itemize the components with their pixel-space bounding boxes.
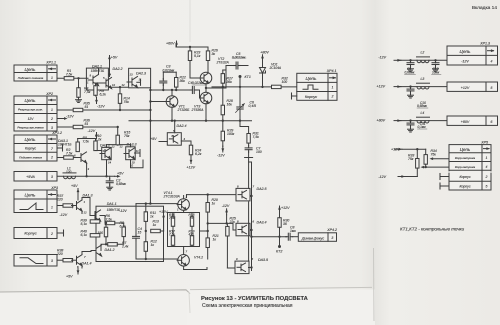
resistor R1 xyxy=(64,77,74,80)
wire +60V rail xyxy=(176,46,208,52)
wires VT2 xyxy=(189,61,191,79)
main output bus xyxy=(212,86,297,88)
svg-text:Подсвет знаков: Подсвет знаков xyxy=(19,156,42,160)
VT2-VT3 link xyxy=(205,84,207,92)
+80V row box xyxy=(447,116,498,125)
svg-text:2: 2 xyxy=(485,175,488,179)
VT4 box xyxy=(168,213,200,247)
inductor L2 xyxy=(417,57,430,63)
svg-text:L2: L2 xyxy=(421,51,425,55)
svg-text:Корпус: Корпус xyxy=(459,185,470,189)
svg-text:DA2.5: DA2.5 xyxy=(257,187,267,191)
connector XP1.3 xyxy=(447,46,498,65)
wire R25 to DA3.4 input xyxy=(227,223,236,230)
svg-text:-12V: -12V xyxy=(378,56,386,60)
svg-text:198НТ1Б: 198НТ1Б xyxy=(91,69,104,73)
svg-text:100к: 100к xyxy=(227,132,235,136)
resistor R25 xyxy=(226,226,229,236)
resistor R4 xyxy=(77,88,80,98)
resistor R8 xyxy=(122,227,125,237)
svg-text:5: 5 xyxy=(486,185,488,189)
svg-text:7,5к: 7,5к xyxy=(169,233,175,237)
+5V arrow end of +5VA row xyxy=(117,175,121,178)
svg-text:Цепь: Цепь xyxy=(25,98,37,103)
svg-text:2С104А: 2С104А xyxy=(269,66,282,70)
DA3.3 box xyxy=(126,147,136,160)
DA2.4 pin5 stub to bus2 xyxy=(174,121,176,133)
svg-text:1: 1 xyxy=(51,76,53,80)
resistor R30 xyxy=(278,218,281,228)
svg-text:6,2к: 6,2к xyxy=(195,152,202,156)
Корпус pin2 stub xyxy=(57,232,64,234)
optobox DA3.4 xyxy=(236,223,250,236)
svg-text:190: 190 xyxy=(97,231,103,235)
svg-text:5: 5 xyxy=(491,86,493,90)
svg-text:36к: 36к xyxy=(227,80,233,84)
svg-text:3к: 3к xyxy=(212,52,216,56)
svg-text:DA2.3: DA2.3 xyxy=(136,71,146,75)
svg-text:7,5к: 7,5к xyxy=(106,218,113,222)
capacitor C9 xyxy=(407,60,414,67)
capacitor C5 xyxy=(234,62,241,69)
svg-text:L3: L3 xyxy=(421,77,425,81)
svg-text:12V: 12V xyxy=(28,117,35,121)
wires DA1.3 to DA1.1 xyxy=(82,198,90,216)
resistor R32 xyxy=(272,85,282,88)
svg-text:16к: 16к xyxy=(227,102,233,106)
XP2 header arrow xyxy=(49,99,56,102)
svg-text:VT4.2: VT4.2 xyxy=(194,256,203,260)
transistor DA1.2 xyxy=(91,245,102,256)
svg-text:+5V: +5V xyxy=(117,172,124,176)
DA3.1 emitter down xyxy=(86,163,88,176)
svg-text:Корпус: Корпус xyxy=(305,95,317,99)
wire to DA2.5 xyxy=(187,194,237,196)
resistor R17 xyxy=(171,236,174,246)
svg-text:13: 13 xyxy=(130,73,134,77)
svg-text:75к: 75к xyxy=(408,157,414,161)
transistor VT1 xyxy=(166,96,178,108)
capacitor C8 xyxy=(286,233,293,240)
transistor DA1.4 xyxy=(72,255,83,266)
svg-text:12: 12 xyxy=(112,145,116,149)
wire VT4 box to R20 column xyxy=(200,230,208,232)
resistor R38 xyxy=(63,259,73,262)
wire +5VA row xyxy=(57,175,115,177)
resistor R13 xyxy=(151,229,161,232)
svg-text:XP4.2: XP4.2 xyxy=(326,228,337,232)
svg-text:51: 51 xyxy=(85,105,89,109)
svg-text:+12V: +12V xyxy=(377,85,386,89)
resistor R10 xyxy=(94,141,97,151)
transistor DA1.1a xyxy=(90,210,101,221)
XP1.1 header arrow xyxy=(49,67,56,70)
Корпус stub XP4.1 xyxy=(292,95,297,97)
+12V under R24 xyxy=(190,155,192,158)
resistor R27 xyxy=(221,74,224,84)
C3/R22 loop top wire xyxy=(163,71,176,73)
svg-text:7,5к: 7,5к xyxy=(84,90,91,94)
svg-text:Корр.катушка: Корр.катушка xyxy=(455,156,476,160)
-12V under R9 xyxy=(95,98,98,104)
svg-text:0,68мк: 0,68мк xyxy=(405,71,415,75)
resistor R15 xyxy=(116,135,119,145)
resistor R40 xyxy=(90,234,100,237)
svg-text:2,4к: 2,4к xyxy=(121,245,129,249)
svg-text:DA1.2: DA1.2 xyxy=(105,248,115,252)
resistor R21 xyxy=(206,238,209,248)
vertical from C7 to DA2.5 xyxy=(248,158,250,189)
svg-text:12: 12 xyxy=(122,83,126,87)
svg-text:75к: 75к xyxy=(124,100,130,104)
svg-text:+5V: +5V xyxy=(66,275,73,279)
svg-text:XP3: XP3 xyxy=(50,186,58,190)
svg-text:XP1.3: XP1.3 xyxy=(479,42,490,46)
XP3 header arrow xyxy=(49,193,56,196)
resistor R11 xyxy=(144,212,147,222)
resistor R19 xyxy=(190,236,193,246)
svg-text:-12V: -12V xyxy=(378,175,386,179)
КТ2 test point xyxy=(278,245,281,248)
variable capacitor C6 xyxy=(236,87,245,121)
wire XP3 pin1 to R37 xyxy=(57,205,63,207)
svg-text:2ТС3103А: 2ТС3103А xyxy=(163,195,181,199)
output wire to XP4.2 xyxy=(252,236,287,238)
svg-text:1: 1 xyxy=(51,108,53,112)
inductor L4 xyxy=(417,117,430,123)
svg-text:Регулир.ярк.знаков: Регулир.ярк.знаков xyxy=(17,126,44,130)
svg-text:-12V: -12V xyxy=(88,129,96,133)
+12V filter wire xyxy=(400,86,447,88)
svg-text:220: 220 xyxy=(56,252,63,256)
svg-text:100: 100 xyxy=(282,80,288,84)
svg-text:13: 13 xyxy=(103,149,107,153)
transistor DA2.2 xyxy=(101,78,112,89)
resistor R29 xyxy=(221,131,224,141)
svg-text:DA1.1: DA1.1 xyxy=(107,202,117,206)
svg-text:Схема электрическая принципиал: Схема электрическая принципиальная xyxy=(202,303,293,309)
wire XP2 pin3 row xyxy=(57,126,118,128)
svg-text:-12V: -12V xyxy=(60,213,68,217)
transistor DA3.2 xyxy=(100,148,111,159)
resistor R23 xyxy=(188,51,191,61)
transistor DA1.3 xyxy=(72,200,83,211)
loop bottom wire xyxy=(150,89,189,91)
connector XP4.2 Динам.фокус xyxy=(298,233,336,242)
svg-text:Корр.катушка: Корр.катушка xyxy=(455,165,476,169)
svg-text:1: 1 xyxy=(332,85,334,89)
resistor R34 xyxy=(425,149,427,154)
svg-text:Регулир.ярк.сигн.: Регулир.ярк.сигн. xyxy=(18,108,43,112)
svg-text:75к: 75к xyxy=(124,134,130,138)
svg-text:+60V: +60V xyxy=(166,41,175,45)
resistor R6 xyxy=(105,221,115,224)
long feedback vertical xyxy=(149,88,151,204)
transistor DA3.1 xyxy=(76,152,87,163)
parallel bus line xyxy=(248,202,250,261)
+60V supply xyxy=(175,41,178,47)
bus3 top xyxy=(136,203,178,205)
svg-text:3: 3 xyxy=(51,259,53,263)
svg-text:2: 2 xyxy=(50,232,53,236)
connector XP3 xyxy=(14,190,57,213)
node 12-12 wire xyxy=(109,86,128,88)
svg-text:198НТ1Б: 198НТ1Б xyxy=(107,208,120,212)
svg-text:11: 11 xyxy=(136,149,139,153)
svg-text:7,5к: 7,5к xyxy=(169,216,175,220)
DA3.2-DA3.3 link wire xyxy=(106,145,108,148)
op-amp box DA2.1 xyxy=(86,68,108,90)
svg-text:DA2.1: DA2.1 xyxy=(92,65,102,69)
inductor L1 xyxy=(63,173,76,179)
svg-text:120: 120 xyxy=(66,170,72,174)
VT4 inner wires xyxy=(172,226,174,235)
-12V under R33 xyxy=(416,168,418,176)
wire DA2.1 collector up xyxy=(98,68,100,74)
resistor R24 xyxy=(189,145,192,155)
resistor R36 xyxy=(73,125,83,128)
svg-text:1к: 1к xyxy=(153,223,157,227)
svg-text:4: 4 xyxy=(491,59,493,63)
svg-text:5,1к: 5,1к xyxy=(194,54,201,58)
svg-text:3: 3 xyxy=(331,236,333,240)
svg-text:6,2к: 6,2к xyxy=(120,225,127,229)
XP1.2 header arrow xyxy=(49,138,56,141)
row1 wire xyxy=(433,158,449,160)
svg-text:7: 7 xyxy=(51,147,53,151)
KT1 test point xyxy=(239,75,242,78)
Корпус box pin2 xyxy=(14,228,57,239)
capacitor C2 xyxy=(106,178,113,185)
svg-text:6,1к: 6,1к xyxy=(81,233,88,237)
connector XP1.1 xyxy=(14,65,57,81)
svg-text:L4: L4 xyxy=(421,111,425,115)
svg-text:12: 12 xyxy=(84,211,88,215)
transistor DA3.3 xyxy=(124,148,135,159)
-12V filter wire xyxy=(400,59,447,61)
svg-text:51: 51 xyxy=(85,122,89,126)
capacitor C12 xyxy=(432,60,439,67)
XP4.1 pulse waveform xyxy=(303,85,318,89)
svg-text:КТ1,КТ2 - контрольные точки: КТ1,КТ2 - контрольные точки xyxy=(400,227,465,232)
svg-text:5,1к: 5,1к xyxy=(81,222,88,226)
transistor VT4.2 xyxy=(177,254,189,266)
inner wires DA1.1 xyxy=(100,216,105,224)
sawtooth-down waveform xyxy=(20,258,43,264)
svg-text:XP1.2: XP1.2 xyxy=(51,131,62,135)
svg-text:DA2.4: DA2.4 xyxy=(177,124,187,128)
svg-text:+80V: +80V xyxy=(377,119,386,123)
svg-text:14: 14 xyxy=(108,73,112,77)
capacitor C4b xyxy=(133,234,140,241)
svg-text:2Т326Б: 2Т326Б xyxy=(177,108,191,112)
svg-text:DA1.3: DA1.3 xyxy=(83,194,93,198)
svg-text:14: 14 xyxy=(108,161,112,165)
VT4.2 collector wire xyxy=(184,268,207,270)
svg-text:+5V: +5V xyxy=(111,56,118,60)
svg-text:36к: 36к xyxy=(180,79,186,83)
zener VD1 xyxy=(260,68,266,87)
svg-text:1мк: 1мк xyxy=(290,229,296,233)
svg-text:+5VA: +5VA xyxy=(26,175,35,179)
resistor R22 xyxy=(175,78,178,88)
svg-text:220: 220 xyxy=(56,198,63,202)
svg-text:DA2.2: DA2.2 xyxy=(113,67,123,71)
ground under R4 xyxy=(76,97,82,102)
svg-text:Динам.фокус: Динам.фокус xyxy=(301,236,325,240)
capacitor C3 xyxy=(160,79,167,86)
transistor VT2 xyxy=(200,72,212,84)
svg-text:+12V: +12V xyxy=(281,206,290,210)
capacitor C4 xyxy=(190,87,197,94)
connector XP4.1 xyxy=(297,73,337,100)
connector XP5 xyxy=(449,145,491,190)
svg-text:-12V: -12V xyxy=(66,115,74,119)
svg-text:6: 6 xyxy=(491,120,493,124)
svg-text:+5V: +5V xyxy=(71,184,78,188)
svg-text:+80V: +80V xyxy=(260,51,269,55)
svg-text:DA3.5: DA3.5 xyxy=(258,258,268,262)
svg-text:DA1.4: DA1.4 xyxy=(82,261,92,265)
wire XP3 pin3 to R38 xyxy=(57,259,63,261)
+80V filter wire xyxy=(400,120,447,122)
svg-text:10: 10 xyxy=(130,164,134,168)
svg-text:-12V: -12V xyxy=(222,204,230,208)
left vertical with C4b xyxy=(135,204,137,235)
wire XP2 pin2 -12V xyxy=(57,118,64,120)
cap stub right of DA2.3 xyxy=(137,81,141,83)
svg-text:2ТЕ32А: 2ТЕ32А xyxy=(216,61,230,65)
right bus of opto column xyxy=(251,162,253,271)
page bottom edge xyxy=(0,292,187,325)
DA2.4 to R24 xyxy=(181,141,191,145)
svg-text:2Т636А: 2Т636А xyxy=(191,108,205,112)
svg-text:10мк: 10мк xyxy=(432,71,440,75)
svg-text:-12V: -12V xyxy=(97,104,105,108)
DA3.3 pin10 loop xyxy=(131,160,144,168)
resistor R31 xyxy=(247,134,250,144)
svg-text:15: 15 xyxy=(138,231,142,235)
inductor L3 xyxy=(417,83,430,89)
svg-text:6,2к: 6,2к xyxy=(100,93,107,97)
svg-text:Подсвет сигнала: Подсвет сигнала xyxy=(18,76,44,80)
XP1.2 Корпус pin7 stub xyxy=(57,147,63,149)
svg-text:1к: 1к xyxy=(212,202,216,206)
sawtooth-down box pin3 xyxy=(14,255,57,267)
svg-text:2: 2 xyxy=(50,117,53,121)
resistor 190 xyxy=(104,227,107,237)
svg-text:Корпус: Корпус xyxy=(25,147,36,151)
svg-text:+12V: +12V xyxy=(461,86,470,90)
svg-text:36: 36 xyxy=(283,222,287,226)
+5VA box xyxy=(14,172,57,182)
svg-text:7,5к: 7,5к xyxy=(66,72,73,76)
svg-text:Рисунок 13 - УСИЛИТЕЛЬ ПОДСВЕТ: Рисунок 13 - УСИЛИТЕЛЬ ПОДСВЕТА xyxy=(201,296,309,302)
svg-text:+5V: +5V xyxy=(150,137,157,141)
transistor DA2.1 xyxy=(88,75,99,86)
emitter downs to bus2 xyxy=(171,107,173,120)
svg-text:+12V: +12V xyxy=(187,166,196,170)
resistor R2 xyxy=(64,156,74,159)
XP3 sawtooth-up waveform xyxy=(20,203,43,210)
svg-text:12: 12 xyxy=(120,145,124,149)
svg-text:1: 1 xyxy=(51,205,53,209)
svg-text:Вкладка 14: Вкладка 14 xyxy=(472,5,497,11)
+12V row box xyxy=(447,82,498,91)
DA3.2 box xyxy=(102,147,112,159)
wire XP1.1 pin1 to R1 xyxy=(57,77,88,79)
R20 bottom node xyxy=(207,212,209,238)
transistor VT3 xyxy=(200,92,212,104)
svg-text:-12V: -12V xyxy=(217,154,225,158)
svg-text:470: 470 xyxy=(189,233,195,237)
op-amp box DA1.1 xyxy=(96,206,164,261)
+12V over R30 xyxy=(278,206,281,212)
svg-text:1: 1 xyxy=(486,156,488,160)
svg-text:DA3.4: DA3.4 xyxy=(257,221,267,225)
svg-text:0,4/5: 0,4/5 xyxy=(249,104,257,108)
svg-text:Корпус: Корпус xyxy=(459,175,470,179)
svg-text:0,1мк: 0,1мк xyxy=(418,125,427,129)
resistor R12 xyxy=(144,242,147,252)
wire node to R14 xyxy=(119,87,121,94)
resistor R16 xyxy=(171,217,174,227)
wire XP1.2 pin2 to R2 xyxy=(57,157,76,159)
capacitor C7 xyxy=(245,145,252,152)
svg-text:DA3.2: DA3.2 xyxy=(100,143,110,147)
svg-text:+12V: +12V xyxy=(159,210,168,214)
optobox DA2.4 xyxy=(167,133,181,146)
optobox DA2.5 xyxy=(236,188,250,201)
svg-text:XP5: XP5 xyxy=(480,141,488,145)
resistor R7 xyxy=(108,243,118,246)
svg-text:3: 3 xyxy=(51,175,53,179)
svg-text:2: 2 xyxy=(185,195,188,199)
resistor R14 xyxy=(118,94,121,104)
VT4.1 collector wire right xyxy=(186,195,188,198)
resistor R28 xyxy=(221,105,224,115)
resistor R9 xyxy=(94,86,97,96)
connector XP2 xyxy=(14,96,57,131)
+12V arrow at R13 xyxy=(160,230,163,232)
resistor R20 xyxy=(207,195,209,203)
transistor VT4.1 xyxy=(177,199,189,211)
svg-text:XP2: XP2 xyxy=(45,92,53,96)
svg-text:Цепь: Цепь xyxy=(460,49,472,54)
svg-text:1к: 1к xyxy=(150,215,154,219)
resistor R33 xyxy=(416,149,418,158)
svg-text:Корпус: Корпус xyxy=(24,232,36,236)
transistor DA2.3 xyxy=(127,77,138,88)
+80V supply xyxy=(261,55,264,61)
resistor R39 xyxy=(90,220,100,223)
svg-text:-12V: -12V xyxy=(120,209,128,213)
wire XP2 pin1 row xyxy=(57,109,150,111)
DA3.2 pin14 down wire xyxy=(106,160,108,177)
svg-text:7,5к: 7,5к xyxy=(253,135,260,139)
svg-text:100: 100 xyxy=(256,150,262,154)
svg-text:XP4.1: XP4.1 xyxy=(326,69,337,73)
VT4.1 leads xyxy=(183,196,185,199)
op-amp box DA2.3 xyxy=(129,68,151,88)
svg-text:0,022мк: 0,022мк xyxy=(192,81,204,85)
XP4.1 header arrow xyxy=(330,76,337,79)
svg-text:XP1.1: XP1.1 xyxy=(45,61,56,65)
row4 wire xyxy=(424,166,449,168)
svg-text:3: 3 xyxy=(51,126,53,130)
svg-text:Цепь: Цепь xyxy=(460,147,471,152)
capacitor C11 xyxy=(407,121,414,128)
